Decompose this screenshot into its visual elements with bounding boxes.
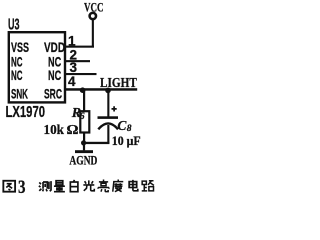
wire pin2 NC stub — [65, 60, 90, 62]
wire AGND stub vertical — [83, 143, 85, 151]
caption char 亮 — [98, 180, 109, 192]
wire C8 top vertical — [107, 90, 109, 117]
svg-text:AGND: AGND — [69, 152, 97, 167]
junction dot at C8 tap — [105, 88, 111, 94]
caption char 白 — [70, 180, 78, 192]
junction dot at AGND stub — [81, 140, 86, 145]
caption char 度 — [113, 180, 124, 192]
svg-text:3: 3 — [18, 178, 26, 198]
svg-text:10 μF: 10 μF — [112, 133, 141, 148]
svg-text:6: 6 — [80, 112, 85, 122]
svg-text:LX1970: LX1970 — [6, 104, 46, 121]
svg-text:10k: 10k — [44, 123, 65, 138]
wire R6 top vertical — [83, 90, 85, 112]
svg-text:NC: NC — [48, 67, 61, 83]
svg-text:3: 3 — [70, 60, 78, 75]
svg-text:Ω: Ω — [67, 123, 79, 138]
caption char 光 — [83, 180, 94, 191]
wire VCC vertical — [92, 20, 94, 47]
svg-text:4: 4 — [68, 74, 76, 89]
VCC terminal circle — [90, 13, 96, 19]
svg-text:SRC: SRC — [44, 86, 62, 102]
caption char 电 — [129, 180, 138, 191]
capacitor C8 plus sign — [112, 106, 117, 111]
svg-text:U3: U3 — [8, 17, 20, 34]
capacitor C8 curved plate — [98, 123, 118, 129]
resistor R6 body — [80, 111, 89, 132]
IC U3 body (LX1970) — [9, 32, 65, 102]
svg-text:NC: NC — [11, 67, 23, 83]
ground AGND bar — [75, 150, 93, 153]
caption figure number 图 (drawn glyph) — [3, 181, 15, 192]
svg-text:SNK: SNK — [11, 86, 28, 102]
svg-text:VSS: VSS — [11, 39, 29, 55]
wire pin3 NC stub — [65, 73, 97, 75]
wire C8 bottom vertical — [107, 125, 109, 144]
caption char 量 — [54, 181, 65, 192]
wire R6 bottom vertical — [83, 133, 85, 144]
caption char 测 — [39, 181, 51, 191]
wire bottom horizontal R6/C8 join — [83, 142, 110, 144]
junction dot at R6 tap — [80, 87, 86, 93]
wire pin4 SRC / LIGHT net horizontal — [65, 88, 137, 91]
wire pin1 VDD horizontal — [65, 46, 94, 48]
caption char 路 — [142, 181, 154, 191]
svg-text:VDD: VDD — [44, 39, 65, 55]
capacitor C8 top plate — [98, 116, 119, 119]
svg-text:LIGHT: LIGHT — [100, 75, 137, 90]
